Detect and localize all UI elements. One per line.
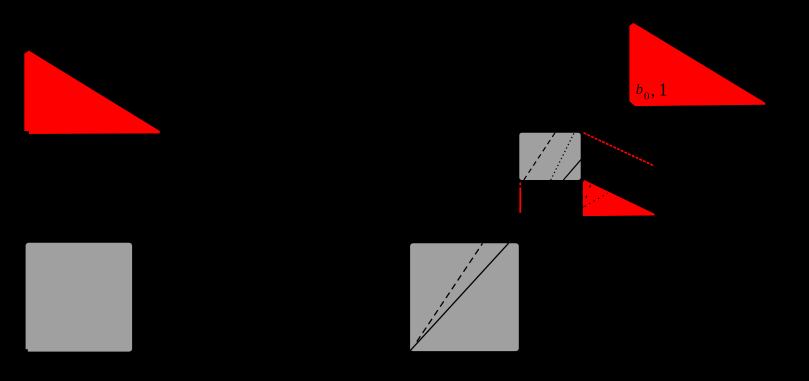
dashed diagonal in middle square — [417, 243, 483, 341]
label b0,1 — [636, 80, 668, 103]
red triangle A (top-left) — [24, 51, 160, 134]
red triangle B (top-right) — [629, 23, 765, 106]
svg-text:1: 1 — [659, 80, 668, 100]
solid diagonal in middle square — [411, 243, 509, 350]
large gray square (bottom-left, plain) — [26, 243, 133, 352]
black corner tick on triangle B — [629, 100, 636, 106]
black dashed mark inside small red triangle — [582, 185, 590, 209]
dashed diagonal in small square — [524, 133, 555, 181]
solid diagonal in small square — [563, 159, 581, 180]
svg-text:,: , — [651, 81, 655, 100]
black corner tick on triangle A — [23, 131, 29, 135]
small gray square (hatched) — [519, 133, 580, 180]
red dashed diagonal line from small square to right — [584, 133, 655, 166]
black corner tick on bottom-left square — [24, 349, 27, 352]
svg-text:0: 0 — [644, 90, 650, 102]
red dashed vertical segment below small square — [519, 183, 521, 213]
black dotted mark inside small red triangle — [585, 193, 608, 206]
large gray square (bottom-middle, with diagonals) — [410, 243, 519, 351]
svg-text:b: b — [636, 82, 643, 98]
dotted diagonal in small square — [551, 133, 575, 181]
small red triangle — [583, 180, 655, 216]
